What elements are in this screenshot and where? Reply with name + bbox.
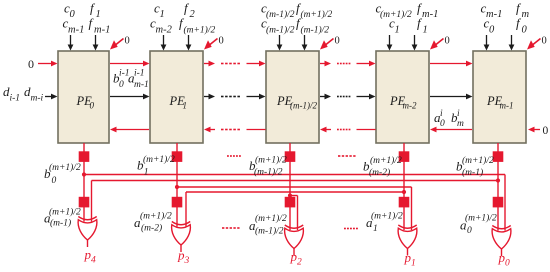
output label p_0: [498, 250, 511, 269]
XOR gate column 4: [492, 226, 511, 257]
svg-text:m-1: m-1: [134, 80, 149, 90]
svg-text:(m+1)/2: (m+1)/2: [143, 154, 175, 165]
register square b column 2: [285, 151, 296, 162]
label 0 at PE1 top-right: [219, 36, 224, 47]
svg-text:0: 0: [543, 125, 549, 137]
svg-text:m-2: m-2: [403, 101, 417, 111]
register square a column 2: [285, 197, 296, 208]
wire black d input arrow into PE0: [45, 94, 58, 100]
label b_1^(m+1)/2: [137, 154, 175, 178]
reset 0 diagonal arrow into PE0 top-right corner: [110, 39, 124, 50]
svg-text:3: 3: [184, 256, 190, 266]
label a_(m-1)^(m+1)/2: [44, 207, 81, 229]
svg-text:b: b: [44, 166, 51, 181]
wire bus line2 b_m-1 broadcast: [92, 180, 499, 182]
svg-text:m-1: m-1: [68, 24, 84, 35]
svg-text:(m-2): (m-2): [141, 223, 162, 234]
svg-text:1: 1: [96, 9, 101, 20]
svg-text:0: 0: [52, 176, 57, 186]
wire black d forward PE0 to PE1: [110, 94, 150, 100]
svg-text:(m-1): (m-1): [50, 218, 71, 229]
continuation dots a row left: [222, 227, 240, 229]
svg-text:m-1: m-1: [422, 9, 438, 20]
register square b column 3: [399, 151, 410, 162]
svg-text:0: 0: [90, 101, 95, 111]
svg-text:m-2: m-2: [156, 24, 173, 35]
svg-text:(m-1)/2: (m-1)/2: [255, 226, 284, 237]
wire red c backward PE3 to PE2 (dashed continuation): [320, 127, 376, 133]
svg-text:0: 0: [445, 36, 450, 47]
svg-text:(m+1)/2: (m+1)/2: [370, 155, 402, 166]
svg-text:(m-1): (m-1): [462, 167, 483, 178]
continuation dots b row right: [338, 155, 356, 157]
label a_(m-2)^(m+1)/2: [134, 211, 172, 234]
label b_0^i-1 a_m-1^i-1 between PE0 and PE1: [113, 69, 149, 91]
wire black d forward PE1 to PE2 (dashed continuation): [204, 94, 266, 100]
register square a column 4: [493, 197, 504, 208]
wire red a/b forward PE0 to PE1: [110, 61, 150, 67]
label b_0^(m+1)/2: [44, 162, 81, 186]
input 0 label left: [28, 57, 34, 71]
wire vertical b/a chain column 4: [497, 143, 499, 231]
svg-text:1: 1: [160, 9, 165, 20]
svg-text:0: 0: [70, 9, 76, 20]
PE2 top input arrow right: [302, 35, 308, 51]
continuation dots b row left: [227, 155, 241, 157]
svg-text:1: 1: [395, 24, 400, 35]
f input label f_1 / f_m-1 PE0: [89, 1, 111, 36]
svg-text:m-i: m-i: [31, 94, 44, 104]
wire red c backward PE2 to PE1 (dashed continuation): [204, 127, 266, 133]
svg-text:1: 1: [423, 24, 428, 35]
wire bus riser to XOR0 right input: [91, 181, 93, 222]
svg-text:0: 0: [28, 57, 34, 71]
wire vertical b/a chain column 3: [403, 143, 405, 230]
svg-text:(m+1)/2: (m+1)/2: [184, 24, 216, 35]
svg-text:(m+1)/2: (m+1)/2: [49, 162, 81, 173]
output label p_1: [404, 250, 416, 269]
c input label c_(m+1)/2 / c_1 PE3: [376, 1, 412, 36]
wire bus riser to XOR4 right input: [504, 175, 506, 231]
reset 0 diagonal arrow into PE1 top-right corner: [204, 39, 218, 50]
wire vertical b/a chain column 0: [83, 143, 85, 222]
XOR gate column 2: [285, 225, 304, 256]
svg-text:(m-2): (m-2): [369, 167, 390, 178]
PE4 top input arrow left: [484, 35, 490, 51]
processing element PE4 box: [473, 51, 526, 143]
f input label f_2 / f_(m+1)/2 PE1: [179, 1, 215, 36]
svg-text:0: 0: [440, 119, 445, 129]
wire red a/b forward PE3 to PE4: [430, 61, 473, 67]
junction node column 3: [402, 190, 406, 194]
PE0 top input arrow right: [93, 35, 99, 51]
PE4 label: [486, 94, 514, 111]
processing element PE0 box: [58, 51, 109, 143]
label b_(m-1)/2^(m+1)/2: [249, 155, 287, 178]
register square a column 1: [172, 197, 183, 208]
processing element PE3 box: [376, 51, 429, 143]
wire red c backward PE4 to PE3: [430, 127, 472, 133]
wire black d forward PE3 to PE4: [430, 94, 473, 100]
output label p_2: [290, 249, 303, 268]
wire vertical b/a chain column 2: [289, 143, 291, 230]
wire bus line4 b_m-2 broadcast: [186, 191, 404, 193]
svg-text:0: 0: [522, 24, 528, 35]
svg-text:1: 1: [411, 259, 416, 269]
svg-text:1: 1: [144, 168, 149, 178]
svg-text:(m+1)/2: (m+1)/2: [140, 211, 172, 222]
output label p_4: [84, 247, 97, 266]
label a_0^i b_m^i between PE3 and PE4: [434, 109, 464, 129]
svg-text:a: a: [366, 215, 373, 230]
svg-text:m-1: m-1: [500, 101, 514, 111]
f input label f_m / f_0 PE4: [516, 1, 530, 36]
svg-text:i: i: [440, 109, 443, 119]
wire bus riser to XOR1 right input: [185, 192, 187, 227]
svg-text:2: 2: [297, 258, 302, 268]
svg-text:(m+1)/2: (m+1)/2: [465, 213, 497, 224]
svg-text:0: 0: [335, 36, 340, 47]
label 0 at PE2 top-right: [335, 36, 340, 47]
svg-text:(m-1)/2: (m-1)/2: [290, 101, 317, 111]
wire red 0 input into PE4 right side: [528, 127, 540, 133]
PE2 top input arrow left: [277, 35, 283, 51]
svg-text:(m-1)/2: (m-1)/2: [301, 24, 330, 35]
register square a column 3: [399, 197, 410, 208]
junction node column 4: [496, 178, 500, 182]
svg-text:0: 0: [219, 36, 224, 47]
label b_(m-2)^(m+1)/2: [363, 155, 402, 178]
svg-text:a: a: [134, 215, 141, 230]
svg-text:a: a: [460, 218, 467, 233]
label a_(m-1)/2^(m+1)/2: [249, 213, 287, 237]
reset 0 diagonal arrow into PE3 top-right corner: [430, 39, 444, 50]
label 0 right side: [543, 125, 549, 137]
f input label f_m-1 / f_1 PE3: [417, 1, 438, 36]
svg-text:i: i: [457, 109, 460, 119]
PE2 label: [276, 94, 317, 111]
register square b column 4: [493, 151, 504, 162]
wire b_(m-1)/2 jog to XOR2: [290, 196, 298, 231]
processing element PE2 box: [266, 51, 319, 143]
svg-text:(m+1)/2: (m+1)/2: [49, 207, 81, 218]
svg-text:(m+1)/2: (m+1)/2: [255, 213, 287, 224]
label b_(m-1)^(m+1)/2: [456, 155, 494, 178]
continuation dots a row right: [344, 228, 358, 230]
svg-text:2: 2: [190, 9, 196, 20]
label 0 at PE3 top-right: [445, 36, 450, 47]
label 0 at PE4 top-right: [542, 36, 547, 47]
svg-text:(m-1)/2: (m-1)/2: [266, 24, 295, 35]
PE4 top input arrow right: [509, 35, 515, 51]
svg-text:1: 1: [183, 101, 188, 111]
PE3 top input arrow left: [387, 35, 393, 51]
PE1 top input arrow left: [161, 35, 167, 51]
reset 0 diagonal arrow into PE4 top-right corner: [527, 39, 541, 50]
input label d_i-1 d_m-i: [3, 84, 44, 104]
register square b column 1: [172, 151, 183, 162]
PE1 top input arrow right: [186, 35, 192, 51]
junction node column 1: [175, 185, 179, 189]
c input label c_1 / c_m-2 PE1: [150, 1, 173, 36]
PE3 label: [389, 94, 417, 111]
wire bus line1 b_0 broadcast: [84, 174, 505, 176]
PE3 top input arrow right: [412, 35, 418, 51]
wire red c backward PE1 to PE0: [110, 127, 149, 133]
XOR gate column 3: [398, 225, 417, 256]
svg-text:(m+1)/2: (m+1)/2: [301, 9, 333, 20]
wire red 0 input arrow into PE0: [38, 61, 58, 67]
reset 0 diagonal arrow into PE2 top-right corner: [320, 39, 334, 50]
svg-text:(m-1)/2: (m-1)/2: [266, 9, 295, 20]
wire red a/b forward PE2 to PE3 (dashed continuation): [320, 61, 376, 67]
svg-text:(m+1)/2: (m+1)/2: [462, 155, 494, 166]
f input label f_(m+1)/2 / f_(m-1)/2 PE2: [296, 1, 332, 36]
svg-text:1: 1: [373, 224, 378, 234]
svg-text:(m+1)/2: (m+1)/2: [371, 211, 403, 222]
XOR gate column 1: [172, 222, 191, 253]
svg-text:0: 0: [467, 226, 472, 236]
svg-text:m: m: [522, 9, 530, 20]
svg-text:(m-1)/2: (m-1)/2: [254, 167, 283, 178]
svg-text:4: 4: [91, 256, 96, 266]
svg-text:0: 0: [119, 80, 124, 90]
svg-text:i-1: i-1: [134, 69, 145, 79]
label 0 at PE0 top-right: [125, 36, 130, 47]
svg-text:m: m: [457, 119, 464, 129]
wire bus riser to XOR3 right input: [411, 187, 413, 230]
svg-text:m-1: m-1: [94, 24, 110, 35]
output label p_3: [177, 248, 190, 267]
svg-text:(m+1)/2: (m+1)/2: [255, 155, 287, 166]
XOR gate column 0: [78, 217, 97, 248]
c input label c_(m-1)/2 PE2: [261, 1, 295, 36]
wire red a/b forward PE1 to PE2 (dashed continuation): [204, 61, 266, 67]
wire bus line3 b_1 broadcast: [177, 186, 412, 188]
svg-text:i-1: i-1: [10, 94, 21, 104]
svg-text:0: 0: [542, 36, 547, 47]
PE1 label: [169, 94, 188, 111]
c input label c_m-1 / c_0 PE4: [481, 1, 503, 36]
wire vertical b/a chain column 1: [176, 143, 178, 227]
junction node column 2: [288, 193, 292, 197]
PE0 label: [76, 94, 95, 111]
register square b column 0: [79, 151, 90, 162]
label a_0^(m+1)/2: [460, 213, 497, 237]
processing element PE1 box: [150, 51, 203, 143]
svg-text:0: 0: [505, 259, 510, 269]
svg-text:0: 0: [489, 24, 495, 35]
junction node column 0: [82, 172, 86, 176]
wire black d forward PE2 to PE3 (dashed continuation): [320, 94, 376, 100]
svg-text:(m+1)/2: (m+1)/2: [380, 9, 412, 20]
c input label c_0 / c_m-1 PE0: [63, 1, 85, 36]
label a_1^(m+1)/2: [366, 211, 403, 235]
register square a column 0: [79, 197, 90, 208]
PE0 top input arrow left: [68, 35, 74, 51]
svg-text:0: 0: [125, 36, 130, 47]
